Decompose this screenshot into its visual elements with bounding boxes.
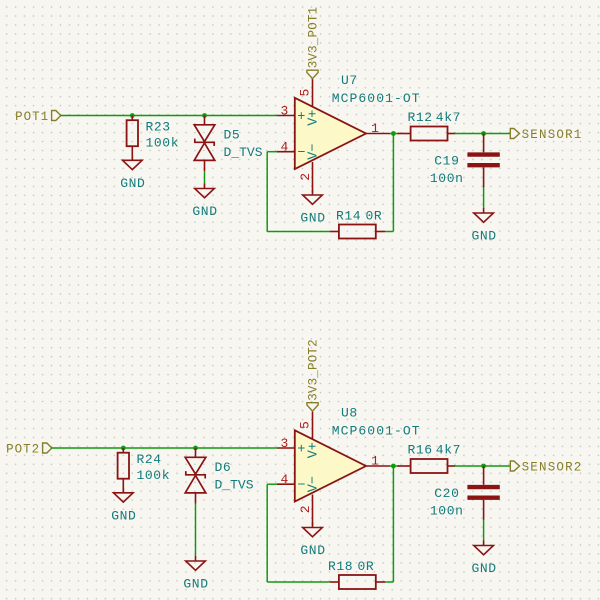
svg-text:3: 3: [280, 436, 288, 451]
op-amp body: [295, 98, 366, 169]
pin 2 (V-): [312, 495, 314, 526]
svg-text:U7: U7: [341, 73, 358, 88]
svg-text:R16: R16: [408, 443, 433, 458]
svg-text:2: 2: [298, 173, 313, 181]
svg-text:4: 4: [280, 472, 288, 487]
TVS diode D5: [194, 116, 215, 172]
svg-text:0R: 0R: [366, 209, 383, 224]
wire D5 to GND: [204, 171, 206, 183]
ground under D6: [186, 556, 206, 570]
resistor R16: [398, 459, 456, 473]
wire feedback to U8 pin 4: [267, 483, 277, 485]
junction node POT2/D6: [193, 446, 198, 451]
ground under U7 pin 2: [303, 190, 323, 204]
svg-text:GND: GND: [120, 176, 145, 191]
svg-text:MCP6001-OT: MCP6001-OT: [332, 424, 421, 439]
wire feedback vertical right: [392, 134, 394, 232]
svg-text:SENSOR1: SENSOR1: [522, 128, 583, 142]
pin 1 (output): [366, 465, 390, 467]
svg-text:R18: R18: [328, 559, 353, 574]
ground under U8 pin 2: [303, 523, 323, 537]
wire feedback vertical left: [266, 484, 268, 582]
wire R16 to SENSOR2: [455, 465, 511, 467]
svg-text:100k: 100k: [146, 136, 180, 151]
svg-text:GND: GND: [471, 561, 496, 576]
wire D6 to GND: [195, 504, 197, 556]
svg-text:4: 4: [280, 140, 288, 155]
wire C19 to GND: [483, 187, 485, 208]
ground under C20: [474, 541, 494, 555]
power hierarchical label 3V3_POT1: [307, 70, 318, 78]
resistor R24: [118, 448, 129, 493]
svg-text:100k: 100k: [137, 468, 171, 483]
svg-text:U8: U8: [341, 406, 358, 421]
svg-text:POT2: POT2: [6, 442, 40, 456]
svg-text:3V3_POT1: 3V3_POT1: [307, 7, 321, 69]
resistor R14 (0R): [330, 225, 385, 239]
junction node U8 output: [391, 464, 396, 469]
svg-text:R24: R24: [137, 452, 162, 467]
hierarchical label POT1: [52, 111, 61, 121]
pin 3 (+): [277, 447, 295, 449]
svg-text:V+: V+: [307, 110, 322, 126]
hierarchical label SENSOR1: [510, 129, 519, 139]
wire R12 to SENSOR1: [455, 133, 511, 135]
op-amp U8 (U8=MCP6001-OT): [277, 412, 390, 525]
ground under R24: [114, 488, 134, 502]
svg-text:5: 5: [297, 421, 312, 429]
svg-text:−: −: [297, 479, 305, 494]
svg-text:D_TVS: D_TVS: [224, 145, 263, 160]
pin 1 (output): [366, 133, 390, 135]
svg-text:3: 3: [280, 103, 288, 118]
junction node POT2/R24: [121, 446, 126, 451]
svg-text:3V3_POT2: 3V3_POT2: [307, 339, 321, 401]
wire feedback to R18: [267, 581, 330, 583]
wire feedback vertical left: [266, 152, 268, 232]
pin 3 (+): [277, 115, 295, 117]
svg-text:D5: D5: [224, 127, 241, 142]
svg-text:GND: GND: [183, 577, 208, 592]
svg-text:−: −: [297, 146, 305, 161]
junction node POT1/R23: [130, 113, 135, 118]
svg-text:1: 1: [371, 454, 379, 469]
power hierarchical label 3V3_POT2: [307, 403, 318, 411]
ground under C19: [474, 208, 494, 222]
wire U7 output to R12: [390, 133, 399, 135]
wire feedback vertical right: [392, 466, 394, 582]
wire C20 to GND: [483, 520, 485, 541]
svg-text:1: 1: [371, 121, 379, 136]
junction node SENSOR2/C20: [481, 464, 486, 469]
ground under R23: [123, 155, 143, 169]
ground under D5: [195, 184, 215, 198]
pin 2 (V-): [312, 162, 314, 193]
wire R14 to output node: [385, 231, 393, 233]
wire feedback to U7 pin 4: [267, 151, 277, 153]
svg-text:4k7: 4k7: [436, 443, 461, 458]
svg-text:C19: C19: [434, 154, 459, 169]
hierarchical label POT2: [43, 443, 52, 453]
resistor R18 (0R): [330, 575, 385, 589]
svg-text:D_TVS: D_TVS: [215, 478, 254, 493]
op-amp body: [295, 430, 366, 501]
op-amp U7 (U7=MCP6001-OT): [277, 79, 390, 192]
svg-text:GND: GND: [471, 229, 496, 244]
svg-text:+: +: [297, 442, 305, 457]
capacitor C20: [467, 466, 499, 520]
svg-text:R14: R14: [336, 209, 361, 224]
pin 5 (V+): [312, 79, 314, 107]
junction node SENSOR1/C19: [481, 131, 486, 136]
svg-text:C20: C20: [434, 486, 459, 501]
junction node U7 output: [391, 131, 396, 136]
pin 4 (-): [277, 151, 295, 153]
svg-text:V−: V−: [307, 144, 322, 160]
svg-text:4k7: 4k7: [436, 110, 461, 125]
svg-text:V+: V+: [307, 442, 322, 458]
svg-text:R12: R12: [408, 110, 433, 125]
svg-text:GND: GND: [300, 543, 325, 558]
svg-text:R23: R23: [146, 120, 171, 135]
svg-text:MCP6001-OT: MCP6001-OT: [332, 91, 421, 106]
wire POT2 to U8 pin 3: [51, 447, 277, 449]
resistor R23: [127, 116, 138, 161]
junction node POT1/D5: [202, 113, 207, 118]
svg-text:5: 5: [297, 89, 312, 97]
svg-text:2: 2: [298, 505, 313, 513]
svg-text:0R: 0R: [358, 559, 375, 574]
svg-text:SENSOR2: SENSOR2: [522, 460, 583, 474]
capacitor C19: [467, 134, 499, 188]
svg-text:100n: 100n: [430, 504, 464, 519]
svg-text:V−: V−: [307, 476, 322, 492]
svg-text:GND: GND: [111, 508, 136, 523]
wire U8 output to R16: [390, 465, 399, 467]
wire POT1 to U7 pin 3: [60, 115, 277, 117]
pin 5 (V+): [312, 412, 314, 440]
pin 4 (-): [277, 483, 295, 485]
svg-text:POT1: POT1: [15, 110, 49, 124]
wire feedback to R14: [267, 231, 330, 233]
svg-text:100n: 100n: [430, 171, 464, 186]
svg-text:GND: GND: [300, 211, 325, 226]
svg-text:GND: GND: [192, 204, 217, 219]
svg-text:+: +: [297, 110, 305, 125]
TVS diode D6: [185, 448, 206, 504]
hierarchical label SENSOR2: [510, 461, 519, 471]
wire R18 to output node: [385, 581, 393, 583]
resistor R12: [398, 127, 456, 141]
svg-text:D6: D6: [215, 460, 232, 475]
